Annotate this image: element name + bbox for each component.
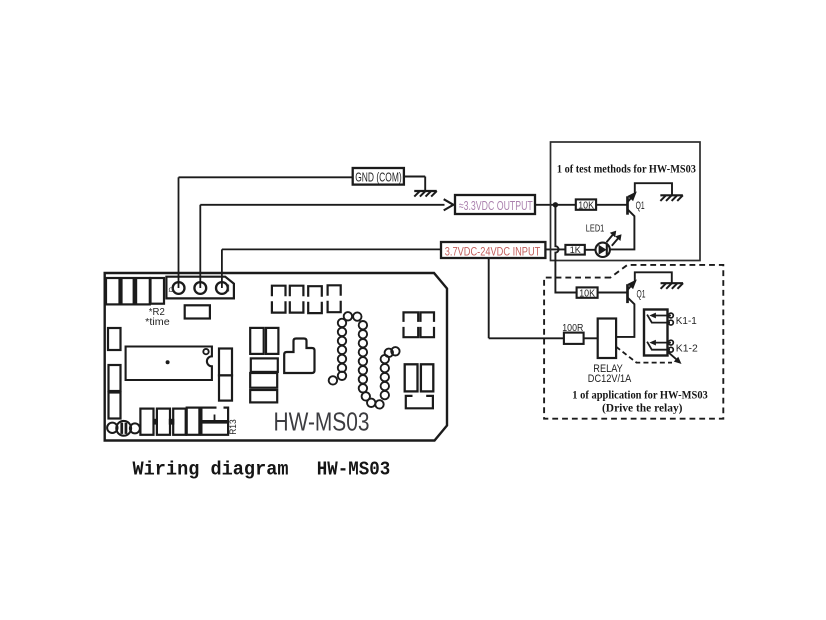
svg-text:DC12V/1A: DC12V/1A	[588, 373, 632, 385]
svg-text:Q1: Q1	[636, 200, 645, 212]
svg-text:1K: 1K	[570, 245, 582, 256]
svg-text:K1-1: K1-1	[676, 315, 697, 327]
svg-text:K1-2: K1-2	[676, 343, 698, 355]
svg-text:Ω: Ω	[169, 287, 174, 294]
svg-text:(Drive the relay): (Drive the relay)	[602, 400, 683, 414]
svg-text:1 of test methods for HW-MS03: 1 of test methods for HW-MS03	[557, 162, 696, 176]
svg-text:10K: 10K	[579, 288, 595, 299]
svg-text:10K: 10K	[578, 200, 594, 211]
svg-text:Q1: Q1	[637, 289, 646, 301]
svg-text:GND (COM): GND (COM)	[355, 170, 402, 184]
svg-text:3.7VDC-24VDC INPUT: 3.7VDC-24VDC INPUT	[445, 244, 541, 258]
svg-text:≈3.3VDC OUTPUT: ≈3.3VDC OUTPUT	[459, 198, 533, 213]
svg-text:HW-MS03: HW-MS03	[274, 406, 370, 436]
svg-text:1 of application for HW-MS03: 1 of application for HW-MS03	[572, 387, 708, 401]
svg-text:R13: R13	[228, 419, 239, 435]
svg-text:Wiring diagram: Wiring diagram	[133, 459, 289, 481]
svg-text:HW-MS03: HW-MS03	[317, 459, 391, 481]
svg-text:LED1: LED1	[586, 222, 605, 234]
svg-text:*time: *time	[145, 317, 170, 328]
